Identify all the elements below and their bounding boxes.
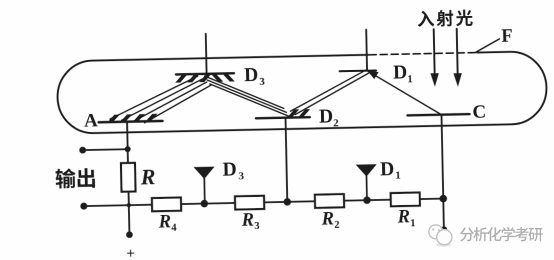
- photocathode electrode A (anode): [99, 121, 163, 122]
- svg-text:3: 3: [254, 221, 259, 232]
- impact wedges under D3 left: [175, 75, 211, 83]
- impact wedges at A: [108, 114, 158, 122]
- wire: output top: [83, 148, 128, 151]
- svg-text:A: A: [84, 110, 98, 131]
- electron beam D1 to D2 (2 rays): [290, 70, 370, 115]
- resistor R: [121, 163, 136, 192]
- electron beam D3 to D2 (3 rays): [205, 74, 289, 118]
- svg-text:+: +: [126, 246, 135, 260]
- svg-text:F: F: [501, 27, 513, 47]
- node: R bottom on bus: [127, 203, 131, 207]
- tube envelope dashed window section: [369, 53, 477, 55]
- dynode D3 tap symbol: [194, 167, 215, 180]
- svg-text:R: R: [240, 210, 254, 230]
- svg-text:D: D: [380, 159, 395, 180]
- svg-text:1: 1: [395, 170, 401, 182]
- node: D1 tap on bus: [363, 196, 371, 204]
- resistor R3: [235, 196, 264, 210]
- svg-text:C: C: [472, 102, 486, 123]
- cathode electrode C: [408, 114, 470, 115]
- resistor R1: [391, 192, 420, 206]
- svg-text:1: 1: [410, 218, 415, 229]
- node: D3 tap on bus: [201, 200, 209, 208]
- wire: A lead down to R and + terminal: [127, 122, 129, 235]
- resistor R2: [315, 194, 344, 208]
- svg-text:R: R: [320, 209, 334, 229]
- svg-text:D: D: [393, 62, 408, 83]
- dynode D1 tap symbol: [356, 164, 377, 177]
- wire: divider bus bottom: [84, 199, 443, 207]
- svg-text:R: R: [396, 207, 410, 227]
- node: battery + terminal: [126, 231, 133, 238]
- arrowhead at D1: [368, 71, 378, 79]
- svg-text:2: 2: [333, 117, 339, 129]
- node: output bottom terminal: [80, 203, 87, 210]
- wire: D2 lead down to divider bus: [286, 118, 288, 202]
- electron beam D3 to A (4 rays): [109, 76, 212, 124]
- svg-text:3: 3: [259, 76, 265, 88]
- dynode electrode D3: [176, 73, 234, 74]
- wire: C lead down to divider bus and - terminal: [442, 115, 444, 230]
- svg-text:R: R: [157, 212, 171, 232]
- incident light arrow 1: [433, 29, 436, 75]
- dynode electrode D1: [340, 69, 376, 72]
- watermark text 分析化学考研: [460, 227, 474, 241]
- tube envelope F: [57, 51, 547, 134]
- svg-text:2: 2: [334, 220, 339, 231]
- svg-text:D: D: [244, 65, 259, 86]
- svg-text:D: D: [319, 106, 334, 127]
- impact wedges at D2: [287, 109, 310, 117]
- node: output top terminal: [79, 147, 86, 154]
- node: A lead / output junction: [125, 146, 131, 152]
- dynode electrode D2: [256, 117, 310, 118]
- label 输出 (output): [55, 168, 76, 188]
- svg-text:3: 3: [238, 170, 244, 182]
- incident light arrow 2: [456, 29, 459, 75]
- photoelectron beam C to D1: [367, 69, 441, 116]
- label 入射光 (incident light): [417, 10, 434, 27]
- wire: D3 top lead: [205, 34, 208, 74]
- svg-text:1: 1: [407, 73, 413, 85]
- resistor R4: [152, 197, 181, 211]
- F pointer line: [475, 39, 500, 53]
- wire: D1 top lead: [365, 30, 368, 71]
- node: C lead on bus: [439, 195, 447, 203]
- impact wedges under D3 right: [212, 74, 235, 82]
- node: D2 lead on bus: [284, 198, 292, 206]
- svg-text:D: D: [222, 160, 237, 181]
- watermark logo: [436, 243, 451, 247]
- node: battery - terminal: [441, 226, 448, 233]
- svg-text:R: R: [139, 164, 155, 189]
